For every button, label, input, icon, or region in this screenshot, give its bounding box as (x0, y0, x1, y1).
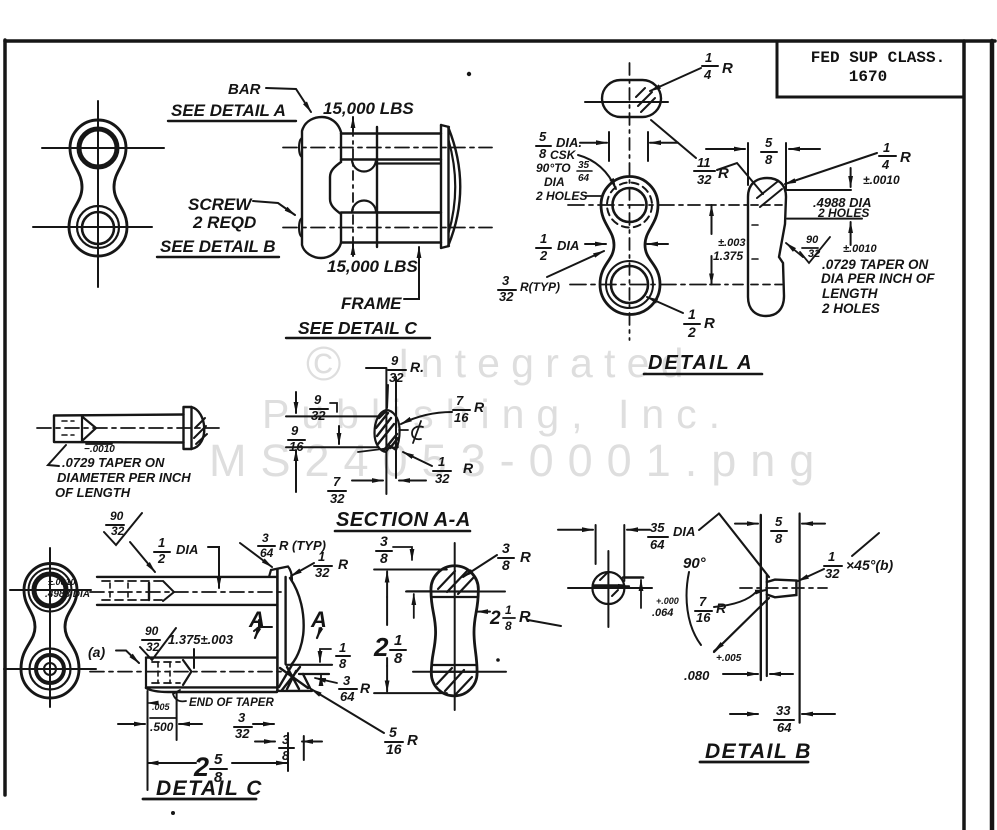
mid bone vertical centerline (454, 543, 456, 710)
chain link top-left: crosshair bottom hole (33, 226, 152, 228)
dim 35/64 ext lines (596, 525, 625, 581)
assembly bar left bump top (299, 138, 302, 157)
label 2 1/8 (373, 632, 403, 667)
dim arrow 9/16 lower (295, 450, 297, 492)
svg-text:5: 5 (389, 724, 397, 740)
svg-text:.500: .500 (150, 720, 174, 734)
detail C link bottom hole mid (36, 655, 64, 683)
svg-text:32: 32 (825, 566, 840, 581)
svg-text:(a): (a) (88, 644, 105, 660)
svg-text:R: R (360, 680, 371, 696)
detail C frame right face (276, 570, 279, 691)
svg-text:R: R (900, 149, 911, 166)
svg-text:8: 8 (505, 619, 512, 633)
dim .500 arrows (118, 723, 145, 725)
cone line upper (719, 514, 769, 578)
svg-text:1.375±.003: 1.375±.003 (168, 632, 234, 647)
leader 1/4R to capsule (785, 153, 877, 184)
assembly flange caps (441, 125, 449, 248)
svg-text:9: 9 (291, 423, 299, 438)
svg-text:A: A (310, 607, 327, 632)
label 11/32 R (697, 155, 712, 187)
svg-text:3: 3 (238, 710, 246, 725)
screw head flange (184, 407, 192, 449)
assembly centerline bottom (283, 227, 492, 229)
svg-text:1670: 1670 (849, 68, 887, 86)
mid bone top chord lines (432, 592, 478, 598)
label 1/2 DIA mid-left (539, 231, 579, 263)
svg-text:64: 64 (578, 173, 590, 184)
svg-text:5: 5 (775, 514, 783, 529)
detail A top hole csk dashed circle (607, 183, 652, 228)
leader surface mark to channel (130, 542, 155, 572)
chain link top-left: top hole bold ring (79, 129, 117, 167)
svg-text:8: 8 (502, 557, 510, 573)
svg-text:16: 16 (454, 410, 469, 425)
bracket 1/2 DIA down arrow (208, 547, 219, 588)
section AA blob outline (375, 410, 400, 452)
svg-text:+.000: +.000 (656, 596, 679, 606)
label 5/8 DIA. (539, 129, 582, 161)
dim 5/8 arrows (706, 148, 745, 150)
dim 3/32 arrow (253, 723, 274, 725)
svg-text:90: 90 (110, 509, 124, 523)
detail A top hole crosshair (568, 204, 700, 206)
svg-text:32: 32 (389, 370, 404, 385)
detail C top channel lines (97, 577, 277, 605)
svg-text:2: 2 (687, 324, 696, 340)
underline SEE DETAIL A (168, 120, 296, 122)
detail C bottom channel lines (146, 658, 277, 688)
chain link top-left: outer bone outline (69, 120, 127, 256)
assembly frame window lines (377, 164, 441, 213)
chain link top-left: crosshair top hole (42, 147, 164, 149)
svg-text:CSK: CSK (550, 148, 577, 162)
dim 5/8 detail B arrows (735, 523, 758, 525)
arrow 2 1/8 R to bone (477, 611, 490, 613)
svg-text:2: 2 (539, 248, 548, 263)
surface mark 90/32 with 1.375 (145, 624, 160, 654)
svg-text:SEE DETAIL C: SEE DETAIL C (298, 318, 417, 338)
svg-text:1: 1 (828, 549, 835, 564)
svg-text:3: 3 (502, 273, 510, 288)
svg-text:5: 5 (214, 751, 223, 768)
label 5/8 capsule (765, 135, 773, 167)
detail C bottom channel centerline (90, 671, 285, 673)
arrows 1/2 DIA to waist (585, 243, 606, 245)
detail C flange outer arc (290, 578, 304, 665)
svg-text:.0729 TAPER ON: .0729 TAPER ON (62, 455, 165, 470)
label 5/16 R (386, 724, 418, 757)
detail C top threaded hole dashed (102, 581, 163, 600)
bracket 1/8 (320, 649, 331, 662)
svg-text:FED SUP CLASS.: FED SUP CLASS. (811, 49, 945, 67)
svg-text:1: 1 (883, 140, 890, 155)
underline DETAIL A (644, 373, 762, 376)
svg-text:.0729 TAPER ON: .0729 TAPER ON (822, 257, 929, 272)
svg-text:R: R (704, 315, 715, 332)
svg-text:90: 90 (806, 234, 819, 246)
detail C top channel centerline (90, 591, 285, 593)
svg-text:8: 8 (775, 531, 783, 546)
svg-text:1.375: 1.375 (713, 249, 743, 263)
screw tip vertical L2 (766, 575, 768, 676)
dim .4988 vertical arrows (850, 168, 852, 187)
underline SEE DETAIL B (157, 256, 279, 258)
label 9/16 (289, 423, 304, 454)
underline SECTION A-A (335, 530, 470, 533)
dim .4988 leader lines (787, 190, 862, 219)
svg-text:32: 32 (330, 491, 345, 506)
ext line x147.5 (147, 691, 149, 790)
top tangent extension line (374, 569, 447, 571)
svg-text:15,000 LBS: 15,000 LBS (323, 99, 414, 118)
detail C link top hole bold ring (34, 574, 66, 606)
svg-text:DETAIL C: DETAIL C (156, 777, 263, 800)
leader SCREW to screw (253, 201, 295, 215)
cone line lower (714, 598, 769, 652)
label 1/4 R top (703, 50, 712, 82)
screw tip cap (767, 580, 797, 598)
svg-text:DIA: DIA (557, 238, 579, 253)
leader (a) (116, 651, 139, 664)
FED SUP CLASS title box (777, 41, 964, 97)
leader 1/32x45 to cap corner (852, 533, 879, 556)
underline SEE DETAIL C (286, 337, 430, 339)
assembly load line vertical (352, 127, 354, 255)
svg-text:3: 3 (380, 533, 388, 549)
detail C link bottom hole inner (44, 663, 56, 675)
label 1/32 R detail C (315, 549, 349, 580)
assembly bar left bump bottom (299, 218, 302, 237)
svg-text:16: 16 (696, 610, 711, 625)
detail C lip bottom line (299, 673, 329, 675)
svg-text:Publishing, Inc.: Publishing, Inc. (262, 391, 732, 437)
assembly top screw outline (341, 134, 441, 160)
screw thread dashes (62, 421, 74, 435)
assembly bell outer arc (449, 128, 461, 245)
ext line L3 (798, 514, 800, 723)
label 7/32 bottom (330, 474, 345, 506)
label 7/16 R section (454, 393, 485, 425)
screw point cone (82, 417, 96, 442)
label +.000 .064 (652, 596, 679, 619)
assembly screw hump top (352, 160, 376, 172)
leader 7/16R to tip (714, 590, 766, 607)
label 5/8 detail B (775, 514, 783, 546)
svg-text:1: 1 (705, 50, 712, 65)
label 3/32 R(TYP) (499, 273, 560, 304)
leader 1/4R to stadium (650, 68, 701, 91)
assembly screw hump bottom (352, 201, 376, 213)
mid bone bottom crosshair (413, 671, 506, 673)
ext line x176.6 (176, 692, 178, 740)
leader 5/16R to gusset (311, 689, 384, 733)
dim 2 5/8 line (148, 762, 163, 764)
detail C link vertical centerline (49, 548, 51, 707)
svg-text:8: 8 (394, 650, 403, 667)
underline DETAIL B (700, 761, 808, 764)
leader 3/64R to corner (240, 543, 272, 567)
svg-text:DIA: DIA (673, 524, 695, 539)
svg-text:SEE DETAIL A: SEE DETAIL A (171, 101, 286, 120)
svg-text:8: 8 (380, 550, 388, 566)
mid bone top cap hatch (438, 570, 474, 594)
svg-text:3: 3 (343, 673, 351, 688)
mid bone outline (431, 566, 478, 696)
svg-text:90°TO: 90°TO (536, 161, 571, 175)
dim 5/8 capsule top extension lines (748, 143, 786, 190)
detail C flange inner vertical (284, 577, 286, 664)
svg-text:35: 35 (578, 160, 590, 171)
leader CSK to csk circle (578, 155, 616, 189)
svg-text:R: R (716, 600, 727, 616)
detail B circle end view (592, 572, 624, 604)
svg-text:32: 32 (697, 172, 712, 187)
mid bone top crosshair (406, 591, 505, 593)
bottom tangent extension line (374, 692, 447, 694)
svg-text:.080: .080 (684, 668, 710, 683)
detail C part bottom edge (146, 688, 312, 692)
leader 9/32R (366, 368, 388, 408)
label 90 TO 35/64 (536, 160, 590, 184)
label 3/32 bottom (235, 710, 250, 741)
svg-text:8: 8 (765, 152, 773, 167)
screw tip centerline (740, 587, 827, 589)
detail A width dim extension lines (609, 132, 648, 161)
dim arrows 7/32 (352, 480, 383, 482)
svg-text:FRAME: FRAME (341, 294, 402, 313)
surface mark 90/32 capsule (806, 234, 820, 260)
border frame left line (3, 40, 7, 795)
svg-text:R: R (474, 399, 485, 415)
cone angle arc (687, 572, 701, 645)
dim 3/8 mid bracket (380, 533, 388, 566)
screw tip vertical L1 (760, 515, 762, 680)
label 2 1/8 R (489, 603, 531, 633)
svg-text:DETAIL B: DETAIL B (705, 740, 812, 763)
screw side view body (54, 415, 184, 443)
svg-text:SECTION A-A: SECTION A-A (336, 509, 471, 531)
svg-text:1: 1 (540, 231, 547, 246)
svg-text:BAR: BAR (228, 81, 261, 98)
svg-text:90: 90 (145, 624, 159, 638)
assembly bell inner arc (449, 140, 456, 233)
svg-text:9: 9 (391, 353, 399, 368)
svg-text:±.0010: ±.0010 (843, 243, 877, 255)
svg-text:SCREW: SCREW (188, 195, 253, 214)
leader BAR to bar top (266, 88, 311, 112)
svg-text:R(TYP): R(TYP) (520, 280, 560, 294)
label 1/32 x 45 (b) (825, 549, 894, 581)
svg-text:64: 64 (340, 689, 355, 704)
assembly load arrow bottom (352, 244, 354, 256)
detail A bone outline (600, 177, 660, 315)
svg-text:R: R (519, 609, 531, 626)
detail A bottom hole crosshair (570, 284, 706, 286)
capsule centerline stubs (706, 204, 748, 206)
svg-text:1: 1 (688, 306, 696, 322)
screw side view centerline (37, 427, 222, 429)
detail C bottom threaded hole (146, 658, 191, 688)
FED SUP CLASS text (811, 49, 945, 86)
svg-text:.4988 DIA: .4988 DIA (45, 589, 90, 600)
leader to cone line (699, 514, 719, 531)
detail B circle crosshair (568, 551, 652, 627)
svg-text:DIA PER INCH OF: DIA PER INCH OF (821, 271, 935, 286)
svg-text:±.003: ±.003 (718, 237, 745, 249)
detail B circle slot bar (594, 584, 622, 588)
detail C link outer bone (21, 564, 79, 699)
svg-text:−.0010: −.0010 (84, 444, 115, 455)
label 1/8 lip (339, 640, 347, 671)
svg-text:OF LENGTH: OF LENGTH (55, 485, 131, 500)
mid bone bottom chord lines (431, 665, 477, 672)
svg-text:8: 8 (539, 146, 547, 161)
section AA horizontal line top (286, 415, 380, 417)
svg-text:33: 33 (776, 703, 791, 718)
note .0729 taper block (821, 257, 935, 316)
svg-text:90°: 90° (683, 555, 707, 572)
svg-text:5: 5 (765, 135, 773, 150)
svg-text:32: 32 (435, 471, 450, 486)
underline DETAIL C (143, 798, 256, 801)
leader 3/64R lip (315, 678, 337, 683)
svg-text:5: 5 (539, 129, 547, 144)
svg-text:R: R (407, 732, 418, 749)
label 3/8 bottom (282, 732, 290, 763)
svg-text:2 REQD: 2 REQD (192, 213, 256, 232)
leader 3/8R to cap (463, 555, 497, 577)
leader 3/32R to waist (547, 251, 604, 277)
svg-text:1: 1 (505, 603, 512, 617)
leader 7/16R to blob (401, 412, 452, 424)
label +-.003 1.375 (713, 237, 745, 263)
svg-text:3: 3 (262, 531, 269, 545)
svg-text:7: 7 (333, 474, 341, 489)
section AA right vertical line (395, 377, 397, 478)
assembly bottom screw outline (341, 213, 441, 243)
svg-text:15,000 LBS: 15,000 LBS (327, 257, 418, 276)
svg-text:R.: R. (410, 359, 424, 375)
leader 11/32R up to stadium (651, 120, 696, 158)
svg-text:1: 1 (438, 454, 445, 469)
svg-text:.064: .064 (652, 607, 673, 619)
border frame top line (5, 39, 995, 43)
screw head dome (192, 407, 205, 449)
chain link top-left: vertical centerline (97, 101, 99, 287)
arrow 3/8 from below (413, 594, 415, 618)
svg-text:4: 4 (881, 157, 890, 172)
ext line x303.8 (303, 736, 305, 760)
dim 33/64 arrows (730, 713, 758, 715)
detail A stadium end view (602, 80, 661, 117)
detail A top hole (613, 188, 647, 222)
svg-text:8: 8 (339, 656, 347, 671)
chain link top-left: bottom hole outer circle (77, 206, 119, 248)
svg-text:2 HOLES: 2 HOLES (535, 189, 587, 203)
svg-text:R: R (463, 460, 474, 476)
dim 35/64 arrows (558, 529, 593, 531)
assembly bar outline (302, 117, 341, 258)
detail A stadium crosshair horizontal (585, 101, 668, 103)
label 9/32 left (311, 392, 326, 423)
assembly load arrow top (352, 117, 354, 130)
svg-text:16: 16 (386, 741, 402, 757)
tail 2 1/8 R (528, 620, 561, 626)
assembly centerline top (283, 147, 492, 149)
surface mark 90/32 top-left (110, 509, 125, 538)
leader FRAME to frame (404, 247, 419, 299)
svg-text:32: 32 (499, 289, 514, 304)
detail C corner gusset hatch (279, 665, 310, 690)
svg-text:1: 1 (158, 535, 165, 550)
assembly frame left face (376, 127, 378, 247)
leader 1/32R detail C (291, 563, 314, 576)
capsule hidden dashes (751, 204, 783, 206)
svg-text:SEE DETAIL B: SEE DETAIL B (160, 237, 276, 256)
screw taper end line (81, 416, 83, 443)
label 1/32 R section (435, 454, 474, 486)
label 1/2 R bottom (687, 306, 715, 340)
svg-text:1: 1 (318, 549, 325, 564)
label 1/2 DIA detail C (157, 535, 198, 566)
dim 2 1/8 vertical (386, 572, 388, 598)
detail A width dim arrows (580, 142, 607, 144)
svg-text:DIAMETER PER INCH: DIAMETER PER INCH (57, 470, 191, 485)
dim arrow 9/32 left (295, 392, 297, 413)
svg-text:7: 7 (456, 393, 464, 408)
detail C part top right corner (269, 567, 292, 581)
leader flag after 1.375 (254, 620, 272, 631)
stray dot 2 (171, 811, 175, 815)
note .0729 taper on diameter (55, 455, 191, 500)
svg-text:64: 64 (260, 546, 274, 560)
label 33/64 (776, 703, 792, 735)
detail C link top hole outer (29, 569, 72, 612)
svg-text:R: R (520, 549, 531, 566)
svg-text:2: 2 (157, 551, 166, 566)
label 3/8 R bone (502, 540, 531, 573)
end of taper tick (193, 649, 195, 668)
detail A bottom hole outer (606, 261, 653, 308)
svg-text:11: 11 (697, 155, 711, 170)
dim 3/8 arrows bottom (255, 741, 275, 743)
detail B circle hatch marks (600, 573, 618, 596)
watermark row 1 (306, 338, 695, 391)
svg-text:DIA: DIA (544, 175, 565, 189)
svg-text:9: 9 (314, 392, 322, 407)
screw head hatch (194, 418, 207, 444)
detail C lip top line (286, 664, 332, 666)
leader taper note (48, 445, 66, 466)
leader 1/2R to bottom lobe (647, 297, 683, 313)
border frame right outer line (990, 41, 995, 830)
ext line x288 (287, 733, 289, 771)
chain link top-left: bottom hole inner circle (82, 212, 114, 244)
svg-text:DIA: DIA (176, 542, 198, 557)
detail A common vertical centerline (629, 63, 631, 340)
svg-text:3: 3 (502, 540, 510, 556)
leader END OF TAPER (173, 690, 186, 701)
leader 1/32R to blob (403, 452, 432, 466)
stray dot 1 (467, 72, 471, 76)
border frame right inner line (962, 41, 966, 830)
svg-text:64: 64 (650, 537, 665, 552)
mid bone bottom cap hatch (437, 668, 472, 694)
dim 1.375 vertical line (711, 207, 713, 214)
svg-text:2 HOLES: 2 HOLES (817, 206, 869, 220)
